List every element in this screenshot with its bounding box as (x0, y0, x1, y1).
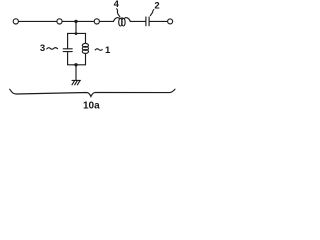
svg-text:2: 2 (154, 0, 159, 11)
svg-text:10a: 10a (83, 101, 100, 112)
svg-text:4: 4 (114, 0, 120, 10)
svg-text:1: 1 (105, 45, 111, 56)
svg-text:3: 3 (40, 43, 45, 54)
